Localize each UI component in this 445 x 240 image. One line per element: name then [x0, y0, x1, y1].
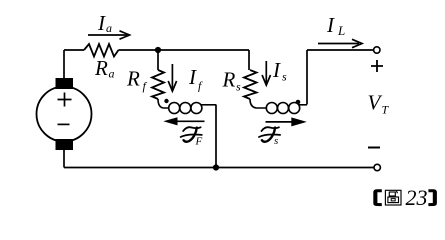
resistor Ra — [84, 44, 119, 57]
svg-text:T: T — [382, 103, 390, 117]
inductor series winding Fs coil — [250, 99, 307, 114]
svg-text:R: R — [222, 68, 236, 92]
current arrow If — [168, 64, 176, 91]
wire Fs coil riser to top — [306, 50, 308, 105]
svg-text:s: s — [282, 70, 287, 84]
current arrow Is — [262, 61, 270, 85]
svg-text:f: f — [143, 79, 148, 93]
inductor field winding FF coil — [158, 99, 216, 114]
resistor Rf — [152, 70, 164, 99]
plus sign output — [371, 60, 383, 72]
svg-text:23: 23 — [406, 185, 428, 210]
node junction top (shunt tap) — [155, 47, 161, 53]
svg-text:V: V — [368, 91, 383, 115]
wire Rf branch drop — [157, 50, 159, 70]
wire top left segment — [64, 49, 84, 51]
current arrow Ia — [88, 31, 130, 39]
figure caption 圖 23 — [373, 185, 437, 210]
mmf arrow Fs (points right) — [266, 117, 307, 126]
svg-text:f: f — [198, 79, 203, 93]
wire armature bottom riser — [63, 150, 65, 168]
label Ia — [97, 11, 112, 35]
svg-text:a: a — [106, 21, 112, 35]
terminal positive (open circle) — [374, 47, 380, 53]
svg-text:F: F — [195, 136, 203, 148]
label If — [188, 65, 203, 93]
resistor Rs — [244, 70, 257, 99]
label Rs — [222, 68, 242, 94]
svg-text:I: I — [272, 58, 281, 82]
current arrow IL — [318, 39, 362, 47]
label IL — [326, 13, 345, 38]
svg-text:I: I — [326, 13, 335, 37]
terminal negative (open circle) — [374, 164, 380, 170]
svg-text:L: L — [337, 23, 345, 38]
wire FF coil to bottom — [215, 105, 217, 168]
svg-text:I: I — [97, 11, 106, 35]
minus sign output — [368, 147, 380, 149]
svg-text:s: s — [236, 80, 241, 94]
label Ra — [94, 56, 115, 81]
label Rf — [126, 67, 148, 94]
wire bottom segment — [64, 167, 374, 169]
wire Rs branch drop — [248, 50, 250, 70]
mmf arrow FF (points left) — [163, 117, 204, 125]
node junction bottom — [213, 164, 219, 170]
label Is — [272, 58, 287, 84]
armature machine M (circle with brushes) — [37, 78, 92, 150]
wire top right output segment — [307, 49, 373, 51]
polarity dot Fs — [296, 100, 301, 105]
label VT — [368, 91, 390, 117]
svg-text:s: s — [274, 135, 278, 147]
svg-text:a: a — [109, 67, 115, 81]
svg-text:R: R — [126, 67, 140, 91]
wire top middle segment — [119, 49, 250, 51]
polarity dot FF — [164, 99, 168, 103]
label script FF — [181, 127, 203, 147]
svg-text:R: R — [94, 56, 108, 80]
wire armature top riser — [63, 50, 65, 78]
svg-text:I: I — [188, 65, 197, 89]
label script Fs — [259, 127, 280, 147]
